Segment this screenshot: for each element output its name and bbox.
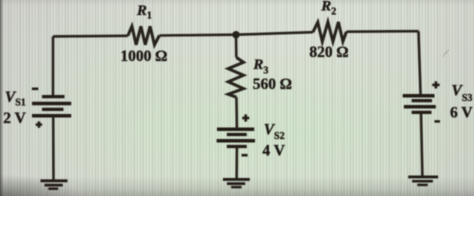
label VS3 [452, 83, 473, 104]
resistor R3 [228, 57, 243, 97]
wire node A to R2 [236, 32, 313, 35]
svg-text:R2: R2 [320, 0, 336, 17]
value label 2 V [3, 110, 26, 127]
svg-text:4 V: 4 V [262, 143, 285, 160]
label R2 [320, 0, 336, 17]
resistor R1 [128, 26, 160, 45]
wire node A to R3 [235, 35, 238, 58]
wire VS3 to ground [421, 112, 422, 176]
value label 560 ohm [253, 76, 292, 93]
svg-text:VS3: VS3 [452, 83, 473, 104]
polarity minus of VS2 [242, 154, 248, 157]
wire left vertical (corner to VS1) [52, 36, 55, 96]
polarity plus of VS3 [432, 81, 439, 88]
wire top-left horizontal (VS1 to node A) [53, 34, 128, 37]
wire R1 to node A [159, 33, 236, 36]
svg-text:VS2: VS2 [264, 122, 285, 142]
label R1 [136, 3, 152, 22]
wire VS2 to ground [235, 147, 238, 179]
ground (middle) [223, 179, 250, 187]
label VS2 [264, 122, 285, 142]
ground (left) [41, 181, 68, 189]
svg-text:560 Ω: 560 Ω [253, 76, 292, 93]
polarity plus of VS1 [36, 121, 42, 127]
polarity plus of VS2 [242, 114, 249, 121]
resistor R2 [313, 22, 347, 42]
svg-text:R1: R1 [136, 3, 152, 22]
value label 4 V [262, 143, 285, 160]
label R3 [252, 57, 268, 77]
battery VS2 [217, 129, 255, 146]
wire R3 to VS2 [235, 97, 238, 129]
value label 1000 ohm [120, 48, 167, 65]
polarity minus of VS3 [435, 120, 441, 123]
polarity minus of VS1 [32, 88, 38, 91]
value label 820 ohm [309, 44, 348, 61]
svg-text:2 V: 2 V [3, 110, 26, 127]
stray pen mark [443, 50, 449, 57]
svg-text:VS1: VS1 [5, 89, 26, 109]
node A junction dot [232, 31, 239, 38]
wire VS1 to ground [52, 116, 55, 180]
wire right vertical (corner to VS3) [419, 31, 421, 95]
svg-text:6 V: 6 V [450, 105, 473, 122]
svg-text:R3: R3 [252, 57, 268, 77]
battery VS1 [32, 97, 71, 116]
ground (right) [408, 177, 438, 185]
svg-text:820 Ω: 820 Ω [309, 44, 348, 61]
battery VS3 [403, 96, 436, 113]
svg-text:1000 Ω: 1000 Ω [120, 48, 167, 65]
value label 6 V [450, 105, 473, 122]
label VS1 [5, 89, 26, 109]
wire R2 to right corner [346, 30, 418, 33]
